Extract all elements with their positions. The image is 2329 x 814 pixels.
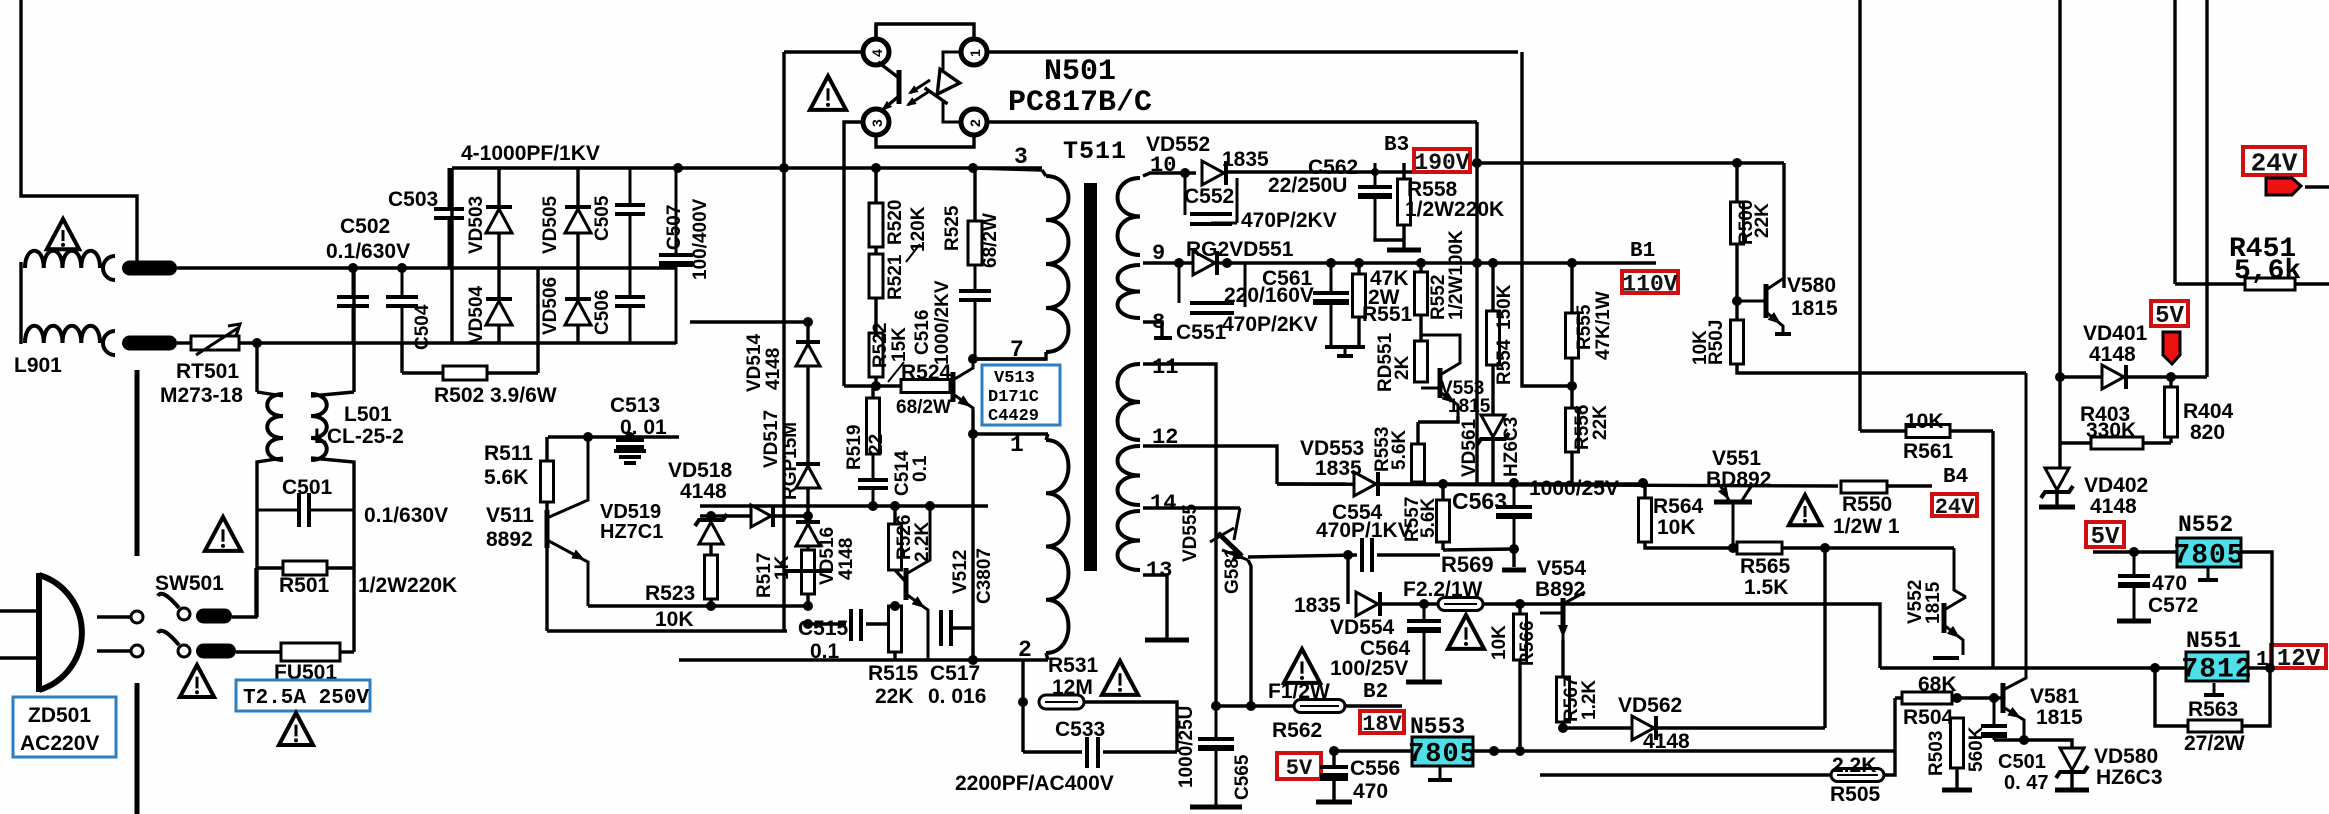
svg-text:R561: R561 bbox=[1903, 440, 1954, 463]
optocoupler N501 pin4 circle bbox=[863, 39, 889, 65]
svg-text:R501: R501 bbox=[279, 574, 330, 597]
resistor R553 bbox=[1412, 444, 1425, 482]
thermistor RT501 bbox=[191, 336, 239, 350]
wire R552 bottom bbox=[1419, 315, 1422, 341]
resistor R504 bbox=[1902, 692, 1952, 704]
svg-text:1000/25V: 1000/25V bbox=[1529, 477, 1619, 500]
wire 190V line bbox=[1477, 161, 1784, 164]
svg-text:VD552: VD552 bbox=[1146, 133, 1210, 156]
junction bbox=[1174, 258, 1184, 268]
red box 190V bbox=[1414, 149, 1470, 172]
wire primary top join bbox=[1042, 170, 1046, 176]
wire R505 right bbox=[1884, 751, 1895, 775]
svg-text:BD892: BD892 bbox=[1706, 468, 1771, 491]
svg-text:C502: C502 bbox=[340, 215, 390, 238]
wire vert x2207 bbox=[2205, 0, 2208, 377]
regulator N552 7805 bbox=[2177, 538, 2241, 567]
svg-text:R525: R525 bbox=[942, 205, 963, 251]
resistor R505 bbox=[1831, 769, 1884, 782]
red box 5V right bbox=[2151, 301, 2188, 326]
svg-text:R523: R523 bbox=[645, 582, 695, 605]
leader marks bbox=[888, 244, 920, 382]
wire diode col 1 bbox=[497, 168, 500, 344]
red tag 5V bbox=[2163, 332, 2180, 364]
wire VD580 bottom bbox=[2070, 773, 2073, 788]
wire C533 line bbox=[1023, 750, 1082, 753]
svg-text:8892: 8892 bbox=[486, 528, 533, 551]
svg-text:12V: 12V bbox=[2277, 646, 2321, 673]
fuse F2.2/1W bbox=[1438, 598, 1483, 611]
wire L501 right top bend bbox=[311, 392, 354, 396]
resistor R501 bbox=[283, 561, 327, 575]
svg-text:C504: C504 bbox=[412, 304, 433, 350]
junction bbox=[803, 511, 813, 521]
svg-text:VD517: VD517 bbox=[761, 410, 782, 468]
wire F1 line bbox=[1216, 704, 1294, 707]
wire plug pin lower bbox=[97, 649, 130, 652]
svg-text:VD503: VD503 bbox=[466, 196, 487, 254]
wire primary2 bottom join bbox=[1046, 653, 1048, 660]
diode VD514 bbox=[796, 344, 820, 366]
wire R451 line bbox=[2175, 282, 2329, 285]
svg-text:1: 1 bbox=[967, 49, 983, 57]
V580 emitter bar bbox=[1775, 332, 1791, 336]
wire RT501 to bridge bbox=[239, 341, 676, 344]
capacitor C564 bbox=[1423, 604, 1426, 621]
wire opto pin2 to right bbox=[987, 120, 1477, 123]
wire VD553 rect line bbox=[1277, 482, 1346, 485]
zener diode VD402 bbox=[2045, 468, 2069, 490]
resistor R519 bbox=[867, 398, 880, 454]
junction bbox=[1509, 478, 1519, 488]
warning triangle I bbox=[1284, 649, 1320, 683]
junction bbox=[1509, 478, 1519, 488]
wire VD561 bottom bbox=[1491, 440, 1494, 483]
switch SW501 lever lower bbox=[158, 631, 179, 645]
svg-text:R563: R563 bbox=[2188, 698, 2238, 721]
red box 18V bbox=[1360, 711, 1404, 733]
svg-text:R404: R404 bbox=[2183, 400, 2234, 423]
wire R519 top bbox=[871, 386, 874, 398]
wire 5V to N552 bbox=[2093, 550, 2176, 553]
resistor R403 bbox=[2091, 437, 2143, 449]
resistor R520 bbox=[869, 203, 883, 247]
junction bbox=[1416, 258, 1426, 268]
wire R552 top bbox=[1419, 263, 1422, 272]
svg-text:68/2W: 68/2W bbox=[896, 397, 951, 418]
capacitor C501 bbox=[257, 509, 299, 512]
wire C517 stub bbox=[951, 626, 973, 629]
diode VD503 bbox=[486, 209, 512, 233]
wire V554 emitter bbox=[1561, 640, 1564, 677]
zener diode VD580 bbox=[2060, 748, 2084, 770]
svg-text:4: 4 bbox=[869, 49, 885, 57]
svg-text:RT501: RT501 bbox=[176, 360, 239, 383]
junction bbox=[2265, 663, 2275, 673]
junction bbox=[252, 338, 262, 348]
wire L501 right lead bbox=[352, 268, 355, 392]
wire R500 bottom bbox=[1735, 244, 1738, 320]
junction bbox=[968, 655, 978, 665]
N552 gnd stub bbox=[2207, 568, 2210, 578]
junction bbox=[1326, 258, 1336, 268]
svg-text:C561: C561 bbox=[1262, 267, 1313, 290]
svg-text:15K: 15K bbox=[889, 327, 910, 362]
transistor V513 bbox=[951, 372, 956, 402]
svg-text:1: 1 bbox=[1010, 432, 1024, 458]
wire R502 left bbox=[402, 371, 443, 374]
wire R565 line bbox=[1645, 542, 1737, 548]
junction bbox=[871, 163, 881, 173]
junction bbox=[803, 601, 813, 611]
svg-text:1835: 1835 bbox=[1294, 594, 1341, 617]
transistor V554 bbox=[1561, 598, 1566, 628]
resistor R502 bbox=[443, 366, 487, 380]
wire R404 joins bbox=[2169, 377, 2172, 387]
wire R501 right bbox=[327, 566, 354, 569]
svg-text:R562: R562 bbox=[1272, 719, 1322, 742]
wire R526 top bbox=[893, 506, 896, 524]
wire R503 bottom bbox=[1955, 768, 1958, 788]
wire R522 bottom bbox=[874, 377, 877, 386]
svg-text:R50J: R50J bbox=[1706, 320, 1727, 365]
wire R403 line bbox=[2060, 441, 2171, 444]
wire R404 bottom bbox=[2169, 437, 2172, 443]
wire V513 emitter run bbox=[971, 410, 974, 660]
svg-text:0. 47: 0. 47 bbox=[2004, 772, 2048, 794]
wire primary2 top join bbox=[1046, 434, 1048, 440]
svg-text:22: 22 bbox=[866, 434, 887, 455]
wire stub col top bbox=[690, 320, 808, 323]
wire pin12 line bbox=[1143, 446, 1277, 484]
wire F1 right bbox=[1345, 704, 1402, 707]
wire R555 top bbox=[1570, 263, 1573, 313]
red tag 24V bbox=[2266, 178, 2301, 195]
svg-text:PC817B/C: PC817B/C bbox=[1008, 86, 1152, 120]
svg-text:0. 016: 0. 016 bbox=[928, 685, 986, 708]
wire startup chain top bbox=[874, 168, 877, 203]
zener diode VD561 bbox=[1481, 415, 1505, 437]
N553 gnd stub bbox=[1439, 766, 1442, 778]
resistor R557 bbox=[1437, 500, 1450, 542]
capacitor C533 plates bbox=[1085, 737, 1089, 768]
wire R565 right bbox=[1782, 546, 1954, 549]
svg-text:V551: V551 bbox=[1712, 447, 1761, 470]
wire sample line A down bbox=[1522, 52, 1572, 386]
wire R504 line bbox=[1895, 696, 2005, 699]
wire bridge bottom jog bbox=[400, 343, 403, 373]
wire bottom rail bbox=[1540, 773, 1831, 776]
svg-text:150K: 150K bbox=[1494, 284, 1515, 330]
svg-text:R569: R569 bbox=[1441, 552, 1494, 577]
wire snubber vert bbox=[973, 170, 976, 221]
wire R565 node down bbox=[1823, 548, 1826, 728]
transistor V512 bbox=[904, 568, 909, 600]
junction bbox=[1472, 258, 1482, 268]
svg-text:5V: 5V bbox=[2155, 303, 2184, 330]
ground C564 bbox=[1406, 680, 1442, 685]
junction bbox=[1489, 746, 1499, 756]
wire VD402 bottom bbox=[2055, 493, 2058, 505]
svg-text:C517: C517 bbox=[930, 662, 980, 685]
switch SW501 contact upper bbox=[178, 608, 190, 620]
wire R502 right bbox=[487, 371, 538, 374]
wire R554 toVD561 bbox=[1491, 365, 1494, 414]
wire C515 line bbox=[808, 622, 846, 625]
resistor RD551 bbox=[1415, 341, 1428, 382]
isolation barrier lower segment bbox=[135, 683, 140, 814]
wire C515 right bbox=[866, 622, 889, 625]
svg-text:5V: 5V bbox=[2091, 524, 2120, 551]
junction bbox=[1419, 599, 1429, 609]
wire AC line upper bbox=[177, 266, 676, 269]
svg-text:V581: V581 bbox=[2030, 685, 2079, 708]
diode VD554 bbox=[1356, 592, 1378, 616]
wire plug stub upper bbox=[0, 609, 39, 612]
wire VD554 out bbox=[1381, 602, 1438, 605]
wire R563 loop bbox=[2155, 668, 2188, 726]
svg-text:22K: 22K bbox=[1752, 203, 1773, 238]
capacitor C563 bbox=[1513, 482, 1516, 507]
wire N552 out bbox=[2242, 552, 2272, 668]
wire R557 joins bbox=[1441, 484, 1444, 500]
wire primary bottom join bbox=[975, 352, 1046, 359]
wire VD580 stub bbox=[2060, 740, 2072, 748]
svg-text:47K/1W: 47K/1W bbox=[1593, 291, 1614, 360]
svg-text:10K: 10K bbox=[1489, 625, 1510, 660]
wire lower return bbox=[547, 629, 787, 632]
regulator N553 7805 bbox=[1412, 737, 1473, 766]
ground R503 bbox=[1942, 788, 1972, 793]
transformer T511 secondary 12-14 bbox=[1118, 446, 1141, 505]
inductor L901 upper winding bbox=[25, 251, 100, 268]
diode VD505 bbox=[565, 209, 591, 233]
wire VD553 line bbox=[1275, 482, 1278, 485]
svg-text:1/2W220K: 1/2W220K bbox=[358, 574, 457, 597]
resistor R564 bbox=[1639, 498, 1652, 542]
svg-text:1000/25U: 1000/25U bbox=[1176, 706, 1197, 788]
wire VD519-R523 bbox=[709, 544, 712, 555]
wire bridge top rail bbox=[452, 166, 1042, 169]
junction bbox=[673, 163, 683, 173]
svg-text:VD580: VD580 bbox=[2094, 745, 2158, 768]
wire opto top bracket bbox=[876, 24, 974, 40]
transistor V551 bbox=[1714, 500, 1752, 505]
svg-text:0.1: 0.1 bbox=[910, 455, 931, 482]
capacitor C517 plates bbox=[939, 610, 943, 646]
N551 gnd stub bbox=[2213, 683, 2216, 693]
svg-text:5.6K: 5.6K bbox=[484, 466, 528, 489]
transistor V580 bbox=[1764, 284, 1769, 318]
svg-text:1/2W 1: 1/2W 1 bbox=[1833, 515, 1900, 538]
wire switch to rail upper bbox=[232, 568, 256, 617]
capacitor C562 bbox=[1374, 163, 1377, 187]
wire vert x2175 bbox=[2173, 0, 2176, 284]
wire R515 bottom bbox=[893, 652, 896, 660]
resistor R522 bbox=[869, 333, 883, 377]
plug pin circle lower bbox=[131, 645, 143, 657]
svg-text:68/2W: 68/2W bbox=[980, 213, 1001, 268]
diode VD506 bbox=[565, 301, 591, 325]
svg-text:R504: R504 bbox=[1903, 706, 1954, 729]
diode VD401 bbox=[2102, 365, 2124, 389]
wire V580 bottom line bbox=[1737, 364, 2026, 373]
capacitor C505 bbox=[629, 168, 632, 205]
wire emitter rail bbox=[588, 604, 808, 607]
zener diode VD519 bbox=[699, 522, 723, 544]
jack lower ferrite blob bbox=[122, 336, 177, 351]
svg-text:22K: 22K bbox=[1590, 405, 1611, 440]
wire diode col 2 bbox=[576, 168, 579, 344]
join bar C561/R551 bbox=[1325, 345, 1365, 349]
junction bbox=[968, 163, 978, 173]
svg-text:VD562: VD562 bbox=[1618, 694, 1682, 717]
svg-text:C4429: C4429 bbox=[988, 407, 1039, 426]
svg-text:1.2K: 1.2K bbox=[1579, 680, 1600, 720]
svg-text:R505: R505 bbox=[1830, 783, 1881, 806]
svg-text:V512: V512 bbox=[950, 550, 971, 594]
resistor R561 bbox=[1906, 425, 1950, 438]
svg-text:RG2VD551: RG2VD551 bbox=[1186, 238, 1294, 261]
wire C533 right bbox=[1103, 750, 1177, 753]
svg-text:1/2W100K: 1/2W100K bbox=[1446, 230, 1467, 320]
wire R567 bottom bbox=[1561, 722, 1564, 728]
jack lower contact bbox=[103, 331, 115, 355]
wire bridge left rail bbox=[450, 168, 453, 344]
svg-text:7805: 7805 bbox=[2173, 541, 2244, 572]
wire mid drive rail bbox=[700, 504, 988, 507]
svg-text:820: 820 bbox=[2190, 421, 2225, 444]
junction bbox=[397, 263, 407, 273]
wire fuse to rail bbox=[340, 650, 354, 653]
svg-text:7812: 7812 bbox=[2181, 655, 2252, 686]
svg-text:HZ6C3: HZ6C3 bbox=[1501, 417, 1522, 477]
svg-text:0.1/630V: 0.1/630V bbox=[364, 504, 448, 527]
junction bbox=[706, 511, 716, 521]
resistor R567 bbox=[1557, 677, 1570, 722]
wire 12V rail bbox=[1880, 666, 2270, 669]
svg-text:1/2W220K: 1/2W220K bbox=[1405, 198, 1504, 221]
svg-text:C501: C501 bbox=[282, 476, 333, 499]
wire R566 bottom bbox=[1518, 660, 1521, 751]
resistor R555 bbox=[1566, 313, 1579, 358]
junction bbox=[583, 432, 593, 442]
svg-text:100/400V: 100/400V bbox=[690, 198, 711, 280]
wire C563 gnd line bbox=[1443, 549, 1514, 550]
svg-text:N552: N552 bbox=[2178, 512, 2233, 538]
junction bbox=[890, 501, 900, 511]
wire pin2 down bbox=[1021, 660, 1024, 752]
wire pin10 line bbox=[1143, 173, 1196, 176]
junction bbox=[1989, 693, 1999, 703]
diode VD551 bbox=[1193, 251, 1215, 275]
svg-text:C572: C572 bbox=[2148, 594, 2198, 617]
wire R531 right bbox=[1084, 702, 1177, 752]
wire left rail bbox=[257, 458, 283, 617]
diode VD553 bbox=[1354, 472, 1376, 496]
red box 24V top bbox=[2243, 147, 2305, 175]
wire T511 pin7 bbox=[973, 357, 1046, 360]
svg-text:1815: 1815 bbox=[1923, 581, 1944, 624]
svg-text:10K: 10K bbox=[655, 608, 694, 631]
jack upper ferrite blob bbox=[122, 261, 177, 276]
junction bbox=[348, 263, 358, 273]
resistor R550 bbox=[1841, 481, 1887, 493]
wire right rail bbox=[311, 458, 354, 652]
svg-text:R511: R511 bbox=[484, 442, 533, 465]
svg-text:470P/2KV: 470P/2KV bbox=[1241, 209, 1337, 232]
junction bbox=[706, 601, 716, 611]
wire R403 jog bbox=[2058, 443, 2061, 472]
plug pin circle upper bbox=[131, 611, 143, 623]
svg-text:N551: N551 bbox=[2186, 628, 2241, 654]
wire C513 line bbox=[548, 435, 679, 438]
resistor R566 bbox=[1514, 614, 1527, 660]
svg-text:C556: C556 bbox=[1350, 757, 1400, 780]
svg-text:C563: C563 bbox=[1452, 488, 1507, 514]
transformer T511 secondary 10-9 bbox=[1118, 178, 1141, 255]
wire pin8 hook bbox=[1143, 322, 1162, 338]
wire V581 emitter line bbox=[1994, 738, 2060, 741]
junction bbox=[1515, 746, 1525, 756]
ground C556 bbox=[1316, 800, 1352, 805]
wire C556 bottom bbox=[1332, 781, 1335, 800]
wire pin11 stub bbox=[1143, 364, 1216, 706]
svg-text:2.2K: 2.2K bbox=[1832, 754, 1876, 777]
svg-text:R515: R515 bbox=[868, 662, 919, 685]
wire AC line lower bbox=[177, 341, 191, 344]
svg-text:1835: 1835 bbox=[1222, 148, 1269, 171]
wire T511 pin2 line bbox=[679, 658, 1048, 661]
svg-text:C516: C516 bbox=[912, 310, 933, 355]
wire diode column bbox=[806, 322, 809, 610]
isolation barrier upper segment bbox=[135, 370, 140, 556]
transistor V555 bbox=[1218, 533, 1242, 556]
svg-text:R520: R520 bbox=[885, 200, 906, 245]
svg-text:VD506: VD506 bbox=[540, 277, 561, 335]
wire opto pin4 joins left vert bbox=[874, 24, 877, 39]
wire R521-R522 bbox=[874, 298, 877, 333]
capacitor C565 bbox=[1215, 706, 1218, 739]
svg-text:C515: C515 bbox=[798, 617, 849, 640]
svg-text:VD401: VD401 bbox=[2083, 322, 2148, 345]
wire R561 line bbox=[1860, 429, 1993, 432]
resistor R525 bbox=[968, 221, 982, 265]
wire R553 top bbox=[1416, 422, 1419, 444]
svg-text:B4: B4 bbox=[1943, 466, 1968, 489]
capacitor C513 bbox=[629, 437, 632, 440]
svg-text:12M: 12M bbox=[1052, 676, 1093, 699]
svg-text:7805: 7805 bbox=[1408, 740, 1477, 770]
wire R551 top bbox=[1357, 263, 1360, 274]
wire R520-R521 bbox=[874, 247, 877, 254]
svg-text:R502 3.9/6W: R502 3.9/6W bbox=[434, 384, 557, 407]
resistor R554 bbox=[1487, 311, 1500, 365]
svg-text:18V: 18V bbox=[1362, 712, 1402, 737]
svg-text:VD519: VD519 bbox=[600, 501, 661, 523]
inductor L501 right winding bbox=[311, 394, 327, 460]
junction bbox=[1952, 693, 1962, 703]
junction bbox=[1638, 478, 1648, 488]
capacitor C572 bbox=[2133, 552, 2136, 576]
optocoupler N501 pin1 circle bbox=[961, 39, 987, 65]
wire VD562 line bbox=[1563, 726, 1825, 729]
svg-text:R521: R521 bbox=[885, 254, 906, 300]
svg-text:14: 14 bbox=[1150, 491, 1176, 516]
svg-text:C562: C562 bbox=[1308, 156, 1358, 179]
junction bbox=[1246, 701, 1256, 711]
svg-text:R555: R555 bbox=[1574, 304, 1595, 350]
